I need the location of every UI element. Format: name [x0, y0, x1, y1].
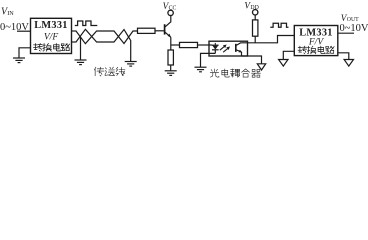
- ground D (under R2): [165, 71, 177, 76]
- power VCC terminal: [168, 10, 173, 15]
- svg-text:IN: IN: [7, 10, 14, 17]
- wire R1 to Q1 base: [155, 30, 165, 32]
- wire U3 right ground lead: [338, 53, 349, 60]
- ground B (pair left): [80, 37, 82, 60]
- wire R4 to collector node: [254, 36, 256, 43]
- wire twisted pair conductor P (signal->ground tail): [76, 31, 138, 44]
- svg-text:V/F: V/F: [44, 32, 58, 42]
- svg-text:CC: CC: [169, 6, 177, 12]
- wire R3 to optocoupler: [198, 44, 213, 46]
- svg-text:DD: DD: [250, 5, 258, 11]
- resistor R3 (LED series): [180, 42, 198, 47]
- wire collector node to U3 input: [248, 36, 295, 43]
- transistor Q1: [164, 24, 166, 34]
- wire emitter to triangle ground F: [242, 56, 262, 64]
- label 转换电路 (box2): [298, 46, 307, 54]
- wire VDD to R4: [254, 15, 256, 20]
- svg-text:0~10V: 0~10V: [340, 23, 368, 34]
- wire U1 ground bottom stub: [72, 41, 77, 43]
- power VDD terminal: [253, 10, 258, 15]
- waveform square wave 1: [75, 21, 98, 26]
- LED emission arrows: [220, 45, 226, 50]
- phototransistor Q2 inside optocoupler: [235, 44, 237, 52]
- wire output stub: [338, 32, 354, 34]
- node emitter junction / wire to R3: [171, 44, 180, 46]
- wire U1 output top stub: [72, 30, 77, 32]
- ground E (LED side): [195, 67, 207, 72]
- ground A (input side): [13, 58, 25, 63]
- wire LED cathode to ground E: [201, 53, 216, 67]
- optocoupler U2 box: [209, 41, 248, 56]
- ground C (pair right): [125, 62, 137, 67]
- op-amp U3 LM331 F/V converter box: [294, 26, 338, 56]
- label 转换电路 (box1): [33, 43, 42, 51]
- LED D1 inside optocoupler: [214, 43, 216, 45]
- ground H (triangle): [344, 60, 353, 67]
- ground F (triangle): [257, 64, 265, 70]
- resistor R4 (pull-up): [253, 20, 258, 36]
- wire emitter to R2: [170, 45, 172, 50]
- svg-text:LM331: LM331: [34, 20, 68, 31]
- svg-text:F/V: F/V: [308, 38, 324, 48]
- wire Q1 emitter down: [170, 37, 172, 45]
- wire U1 ground lead: [19, 48, 31, 58]
- waveform square wave 2: [270, 23, 288, 27]
- wire U3 left ground lead: [283, 51, 294, 59]
- resistor R1 (base): [138, 28, 156, 33]
- ground G (triangle): [279, 60, 288, 67]
- wire twisted pair conductor Q: [76, 29, 131, 61]
- op-amp U1 LM331 V/F converter box: [31, 18, 72, 53]
- resistor R2 (vertical to ground): [168, 50, 173, 65]
- wire input stub to U1: [17, 30, 31, 32]
- label 光电耦合器 optocoupler: [210, 69, 219, 77]
- label 传送线 transmission line: [94, 67, 104, 76]
